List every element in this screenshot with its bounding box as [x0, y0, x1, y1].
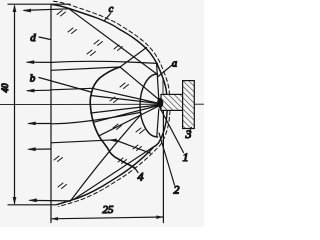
E4 arrowhead	[27, 122, 36, 126]
leader for 1	[160, 107, 184, 153]
lamp holder stem	[161, 94, 183, 110]
svg-text:2: 2	[174, 183, 180, 197]
dimension 25 line	[51, 217, 163, 219]
dashed envelope curve lower	[59, 111, 170, 207]
counter-reflector a small half-ellipse	[140, 74, 158, 137]
glass hatch mark 3	[68, 28, 77, 34]
paraboloid mirror c solid upper branch	[52, 5, 167, 95]
leader for 4	[135, 168, 139, 173]
svg-text:3: 3	[185, 127, 192, 141]
focal ray to arc bottom	[99, 106, 159, 136]
axis centerline	[0, 103, 204, 105]
glass hatch mark 4	[94, 40, 103, 46]
glass hatch mark 7	[110, 97, 119, 103]
focal ray near-vertical down to ellipse bottom	[157, 109, 159, 137]
svg-text:40: 40	[0, 83, 10, 93]
E3 arrowhead	[26, 89, 35, 93]
inner line top to arc	[51, 67, 120, 70]
leader for c	[104, 14, 111, 22]
focal ray shallow up-left	[91, 96, 159, 104]
leader for 2	[159, 133, 175, 185]
chord arc top end to mirror	[120, 48, 147, 68]
svg-text:a: a	[172, 59, 177, 70]
glass hatch mark 9	[136, 128, 145, 134]
E6 arrowhead	[28, 198, 37, 202]
leader for d	[39, 37, 51, 40]
ray arc to focus	[92, 88, 159, 103]
E5 arrowhead	[27, 147, 36, 151]
E2 arrowhead	[26, 60, 35, 64]
glass plane d vertical line	[50, 4, 52, 222]
glass hatch mark 2	[87, 50, 96, 56]
extension line at focal plane	[162, 111, 164, 223]
glass hatch mark 10	[54, 156, 63, 162]
svg-text:d: d	[30, 32, 36, 44]
dim 25 right arrowhead	[156, 215, 163, 219]
glass hatch mark 11	[58, 183, 67, 189]
chord ray bottom edge to ellipse	[70, 114, 142, 202]
dim 40 bottom arrowhead	[13, 197, 17, 205]
svg-text:b: b	[30, 73, 36, 85]
svg-text:25: 25	[103, 204, 115, 216]
bottom extension tick	[8, 204, 56, 206]
exit ray E2	[27, 61, 157, 63]
exit ray E4 outside	[29, 123, 51, 125]
svg-text:c: c	[109, 4, 114, 15]
top extension tick	[8, 3, 70, 5]
extension line upper segment	[162, 79, 164, 95]
glass hatch mark 13	[133, 145, 142, 151]
exit ray E1 top edge	[24, 9, 69, 11]
exit ray E3 outside	[28, 89, 52, 92]
inner line bottom	[51, 140, 115, 143]
focal ray to arc lower	[93, 106, 158, 123]
dashed envelope curve upper	[54, 1, 170, 94]
exit ray E5	[29, 148, 51, 150]
lamp holder head	[183, 81, 195, 129]
E1 arrowhead	[22, 9, 31, 13]
leader for b	[39, 78, 91, 93]
chord ray top edge to ellipse top	[69, 9, 158, 75]
E4 inner tilted ray to ellipse	[51, 112, 141, 123]
dim 40 top arrowhead	[13, 4, 17, 12]
svg-text:4: 4	[138, 170, 144, 184]
dimension 40 vertical line	[14, 6, 16, 204]
exit ray E6 bottom edge	[30, 199, 70, 202]
paraboloid mirror c solid lower branch	[57, 111, 167, 205]
glass hatch mark 6	[120, 83, 129, 89]
leader for 3	[190, 128, 192, 132]
counter-reflector b big arc	[90, 67, 134, 168]
E3 inner segment to arc	[51, 88, 92, 90]
light source blob	[157, 98, 163, 108]
svg-text:1: 1	[183, 150, 189, 164]
diagonal from bottom inner line to mirror	[115, 140, 151, 153]
focal ray shallow down-left	[91, 105, 159, 113]
chord ray bottom to mirror	[74, 147, 154, 200]
dim 25 left arrowhead	[52, 217, 59, 221]
glass hatch mark 8	[113, 124, 122, 130]
leader for a	[158, 66, 172, 78]
focal ray near-vertical up	[157, 64, 159, 99]
ray arc top end to focus	[120, 67, 160, 101]
glass hatch mark 1	[57, 11, 66, 17]
glass hatch mark 5	[114, 45, 123, 51]
mid arrowhead on bottom inner line	[109, 139, 117, 143]
glass hatch mark 12	[118, 158, 127, 164]
